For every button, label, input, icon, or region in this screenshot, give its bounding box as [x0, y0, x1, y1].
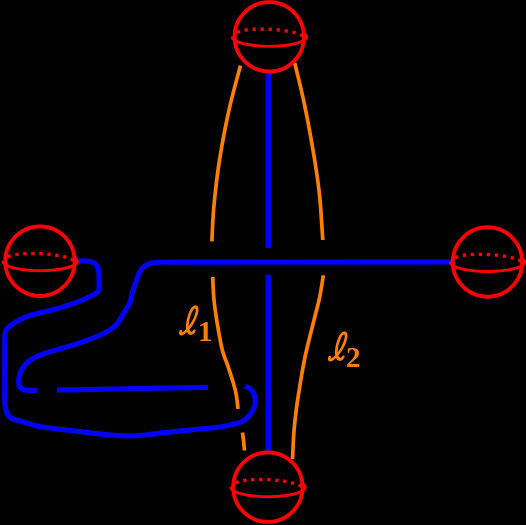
svg-text:1: 1 [198, 316, 213, 348]
svg-text:2: 2 [346, 342, 361, 374]
